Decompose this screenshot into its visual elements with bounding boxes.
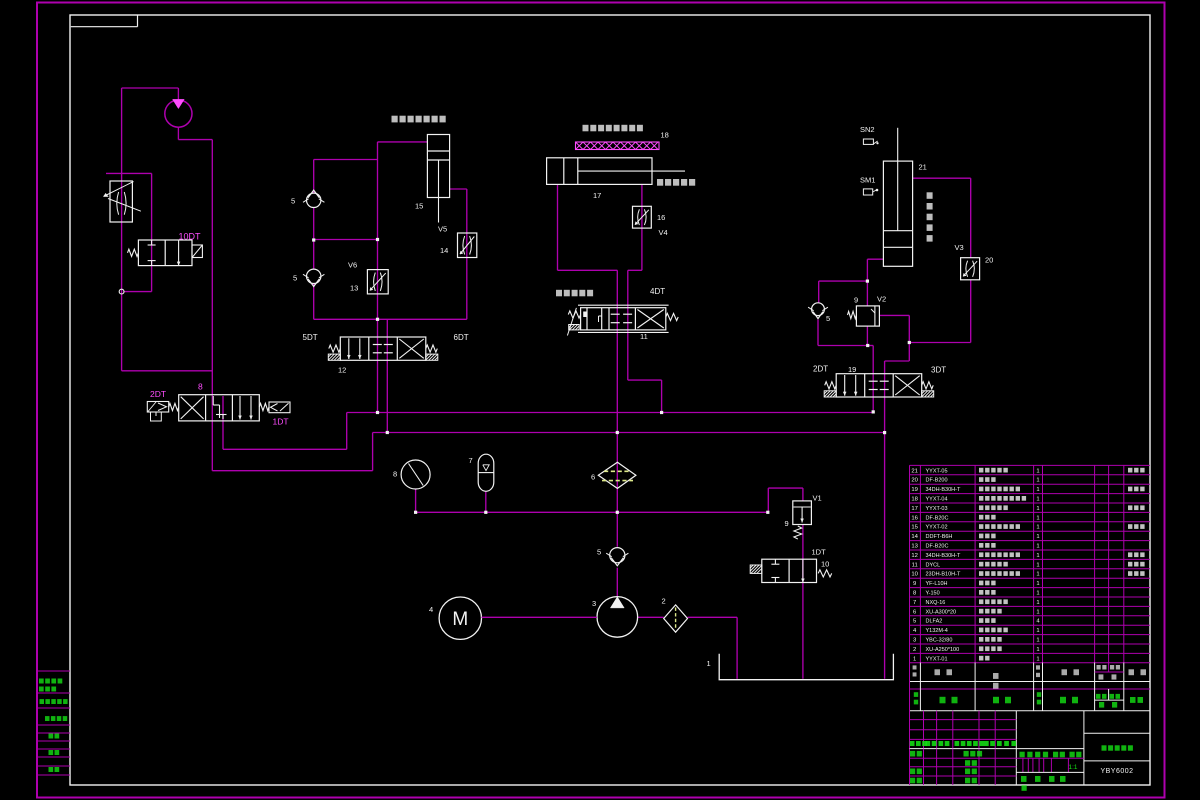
label 8	[393, 470, 397, 479]
wire	[212, 470, 372, 472]
svg-text:1:1: 1:1	[1069, 764, 1078, 771]
wire	[313, 284, 315, 320]
svg-text:XU-A300*20: XU-A300*20	[926, 609, 957, 615]
label 4	[429, 605, 433, 614]
label 5	[826, 314, 830, 323]
wire	[767, 488, 769, 512]
svg-text:1: 1	[1036, 562, 1039, 568]
wire	[558, 269, 618, 271]
svg-text:YBY6002: YBY6002	[1100, 768, 1133, 775]
svg-text:13: 13	[911, 544, 918, 550]
wire	[124, 291, 152, 293]
svg-text:1: 1	[1036, 525, 1039, 531]
svg-text:V6: V6	[348, 261, 357, 270]
wire	[378, 141, 428, 143]
svg-text:1DT: 1DT	[273, 417, 289, 427]
svg-text:2DT: 2DT	[150, 389, 166, 399]
title block grid	[910, 711, 1151, 785]
svg-text:6: 6	[591, 473, 595, 482]
svg-text:SM1: SM1	[860, 176, 875, 185]
svg-text:34DH-B30H-T: 34DH-B30H-T	[926, 487, 961, 493]
parts list header (white)	[913, 665, 1146, 689]
svg-text:YBC-32/80: YBC-32/80	[926, 638, 953, 644]
throttle valve 13 (V6)	[367, 270, 388, 294]
svg-text:YF-L10H: YF-L10H	[926, 581, 948, 587]
svg-text:19: 19	[848, 365, 856, 374]
junction	[872, 410, 875, 413]
svg-text:4DT: 4DT	[650, 287, 665, 296]
svg-text:1: 1	[1036, 609, 1039, 615]
svg-text:2: 2	[913, 647, 916, 653]
label V3	[955, 243, 964, 252]
label 4DT	[650, 287, 665, 296]
wire	[177, 127, 179, 139]
wire	[386, 319, 388, 432]
svg-text:1: 1	[1036, 544, 1039, 550]
svg-text:1: 1	[1036, 628, 1039, 634]
label 2	[662, 597, 666, 606]
wire	[485, 491, 487, 512]
svg-text:2DT: 2DT	[813, 365, 828, 374]
svg-text:1: 1	[1036, 487, 1039, 493]
junction	[376, 318, 379, 321]
title block texts	[910, 741, 1134, 791]
svg-text:1: 1	[707, 659, 711, 668]
svg-text:1: 1	[1036, 591, 1039, 597]
wire	[223, 448, 347, 450]
wire	[867, 258, 883, 260]
pressure line filter 6	[598, 462, 636, 488]
wire	[638, 616, 664, 618]
junction	[616, 431, 619, 434]
svg-text:SN2: SN2	[860, 125, 875, 134]
svg-text:3: 3	[592, 599, 596, 608]
label V5	[438, 225, 447, 234]
label V4	[659, 228, 668, 237]
label 19	[848, 365, 856, 374]
wire	[122, 370, 213, 372]
svg-text:1: 1	[1036, 468, 1039, 474]
wire	[736, 617, 738, 679]
svg-text:14: 14	[440, 246, 448, 255]
svg-text:1: 1	[1036, 506, 1039, 512]
svg-text:YYXT-02: YYXT-02	[926, 525, 948, 531]
proximity switch SM1	[863, 189, 878, 195]
svg-text:7: 7	[469, 456, 473, 465]
label 9	[785, 519, 789, 528]
svg-text:5DT: 5DT	[303, 333, 318, 342]
svg-text:DF-B200: DF-B200	[926, 478, 948, 484]
junction	[908, 341, 911, 344]
wire	[627, 270, 629, 380]
label 5	[291, 197, 295, 206]
svg-text:YYXT-03: YYXT-03	[926, 506, 948, 512]
svg-text:M: M	[452, 609, 468, 630]
wire	[628, 269, 642, 271]
svg-text:1: 1	[1036, 497, 1039, 503]
label 7	[469, 456, 473, 465]
wire	[557, 184, 559, 270]
label SM1	[860, 176, 875, 185]
svg-text:11: 11	[912, 562, 918, 568]
svg-text:Y132M-4: Y132M-4	[926, 628, 948, 634]
wire	[373, 432, 885, 434]
wire	[802, 488, 804, 501]
svg-text:DF-B20C: DF-B20C	[926, 515, 949, 521]
svg-text:5: 5	[291, 197, 295, 206]
wire	[818, 345, 868, 347]
svg-text:YYXT-05: YYXT-05	[926, 468, 948, 474]
label 5	[293, 274, 297, 283]
label 1	[707, 659, 711, 668]
svg-text:18: 18	[661, 131, 669, 140]
label V6	[348, 261, 357, 270]
throttle valve 20 (V3)	[961, 258, 980, 280]
label 20	[985, 256, 993, 265]
wire	[346, 413, 348, 450]
wire	[122, 87, 179, 89]
svg-text:21: 21	[919, 163, 927, 172]
svg-text:10: 10	[821, 560, 829, 569]
svg-text:1DT: 1DT	[812, 548, 827, 557]
svg-text:11: 11	[640, 332, 648, 341]
svg-text:17: 17	[593, 191, 601, 200]
svg-text:9: 9	[785, 519, 789, 528]
label 8	[198, 382, 203, 392]
svg-text:9: 9	[854, 296, 858, 305]
wire	[872, 346, 874, 413]
unloading solenoid valve 10 (1DT, 2/2)	[750, 559, 832, 582]
magnetic displacement sensor 18 (hatched strip)	[576, 142, 660, 150]
wire	[868, 345, 874, 347]
wire	[313, 208, 315, 269]
svg-text:16: 16	[911, 515, 918, 521]
wire	[415, 489, 417, 512]
check valve 5 (lower left)	[303, 269, 324, 286]
svg-text:17: 17	[911, 506, 918, 512]
label 12	[338, 366, 346, 375]
parts list rows	[911, 468, 1144, 663]
wire	[866, 326, 868, 345]
svg-text:8: 8	[198, 382, 203, 392]
label 16	[657, 213, 665, 222]
label 1DT	[812, 548, 827, 557]
svg-text:V4: V4	[659, 228, 668, 237]
pump outlet check valve 5	[606, 548, 628, 566]
svg-text:1: 1	[1036, 647, 1039, 653]
junction	[866, 280, 869, 283]
junction	[376, 411, 379, 414]
junction	[660, 411, 663, 414]
svg-text:15: 15	[911, 525, 918, 531]
svg-text:10: 10	[911, 572, 918, 578]
wire	[970, 178, 972, 258]
wire	[222, 396, 224, 449]
hydraulic motor (top-left, magenta)	[165, 99, 192, 127]
svg-text:9: 9	[913, 581, 916, 587]
svg-text:NXQ-16: NXQ-16	[926, 600, 946, 606]
wire	[884, 361, 886, 679]
wire	[628, 379, 662, 381]
junction	[766, 511, 769, 514]
svg-text:8: 8	[393, 470, 397, 479]
wire	[466, 189, 468, 319]
wire	[818, 281, 820, 303]
electric motor 4 (M)	[439, 597, 597, 639]
svg-text:Y-150: Y-150	[926, 591, 940, 597]
svg-text:20: 20	[985, 256, 993, 265]
svg-text:15: 15	[415, 202, 423, 211]
chinese annotation texts (blocks)	[392, 116, 933, 297]
junction	[414, 511, 417, 514]
label 9	[854, 296, 858, 305]
svg-text:1: 1	[1036, 656, 1039, 662]
svg-text:YYXT-04: YYXT-04	[926, 497, 948, 503]
svg-text:13: 13	[350, 284, 358, 293]
wire	[688, 616, 738, 618]
wire	[121, 88, 123, 371]
wire	[314, 239, 378, 241]
wire	[908, 343, 910, 362]
wire	[178, 139, 212, 141]
svg-text:1: 1	[913, 656, 916, 662]
wire	[177, 88, 179, 100]
wire	[909, 342, 970, 344]
svg-text:5: 5	[293, 274, 297, 283]
wire	[616, 270, 618, 547]
label 2DT	[150, 389, 166, 399]
wire	[908, 315, 910, 342]
suction filter 2	[664, 605, 688, 632]
svg-text:5: 5	[597, 548, 601, 557]
svg-text:20: 20	[911, 478, 918, 484]
wire	[313, 160, 315, 194]
svg-text:1: 1	[1036, 572, 1039, 578]
svg-text:16: 16	[657, 213, 665, 222]
junction	[312, 238, 315, 241]
wire	[817, 320, 819, 346]
svg-text:18: 18	[911, 497, 918, 503]
wire	[450, 188, 467, 190]
check valve 5 (right)	[808, 303, 828, 319]
svg-text:1: 1	[1036, 638, 1039, 644]
vertical lift cylinder 21	[883, 128, 912, 266]
wire	[372, 433, 374, 471]
svg-text:2: 2	[662, 597, 666, 606]
wire	[661, 380, 663, 412]
check valve 5 (upper left)	[303, 190, 324, 207]
svg-text:12: 12	[338, 366, 346, 375]
label 3DT	[931, 366, 946, 375]
wire	[802, 525, 804, 679]
junction	[386, 431, 389, 434]
label 17	[593, 191, 601, 200]
label 10	[821, 560, 829, 569]
relief valve V1 (9)	[793, 501, 812, 539]
svg-text:34DH-B30H-T: 34DH-B30H-T	[926, 553, 961, 559]
junction	[376, 238, 379, 241]
label V2	[877, 295, 886, 304]
svg-text:DYCL: DYCL	[926, 562, 941, 568]
label 6DT	[454, 333, 469, 342]
svg-text:7: 7	[913, 600, 916, 606]
junction	[484, 511, 487, 514]
wire	[211, 140, 213, 471]
pilot valve V2 (9)	[848, 306, 880, 326]
wire	[377, 142, 379, 413]
junction	[616, 511, 619, 514]
svg-text:21: 21	[911, 468, 918, 474]
label 14	[440, 246, 448, 255]
wire	[970, 280, 972, 343]
label 10DT	[179, 232, 202, 242]
oil tank 1	[719, 654, 893, 680]
label 6	[591, 473, 595, 482]
wire	[416, 511, 769, 513]
label 1DT	[273, 417, 289, 427]
svg-text:12: 12	[911, 553, 918, 559]
label 13	[350, 284, 358, 293]
svg-text:1: 1	[1036, 581, 1039, 587]
wire	[106, 172, 152, 174]
svg-text:14: 14	[911, 534, 918, 540]
directional valve 19 (3-pos, 2DT/3DT)	[824, 374, 934, 397]
directional valve 12 (3-pos, 5DT/6DT)	[328, 337, 438, 360]
wire	[347, 412, 874, 414]
svg-text:XU-A250*100: XU-A250*100	[926, 647, 960, 653]
label 5DT	[303, 333, 318, 342]
junction	[866, 344, 869, 347]
wire	[879, 314, 909, 316]
svg-text:DF-B20C: DF-B20C	[926, 544, 949, 550]
label 3	[592, 599, 596, 608]
electro-hydraulic servo valve 11 (4DT)	[567, 305, 678, 335]
svg-text:1: 1	[1036, 553, 1039, 559]
svg-text:YYXT-01: YYXT-01	[926, 656, 948, 662]
wire	[641, 184, 643, 270]
directional valve 8 (3-pos, 2DT/1DT)	[147, 395, 290, 421]
svg-text:3DT: 3DT	[931, 366, 946, 375]
svg-text:23DH-B10H-T: 23DH-B10H-T	[926, 572, 961, 578]
svg-text:V5: V5	[438, 225, 447, 234]
svg-text:V1: V1	[813, 494, 822, 503]
svg-text:10DT: 10DT	[179, 232, 202, 242]
proximity switch SN2	[863, 139, 878, 144]
node connection circle	[119, 289, 124, 294]
gripper cylinder 15	[427, 135, 449, 223]
wire	[151, 173, 153, 291]
label 5	[597, 548, 601, 557]
label 21	[919, 163, 927, 172]
wire	[913, 177, 971, 179]
wire	[768, 487, 803, 489]
svg-text:V2: V2	[877, 295, 886, 304]
svg-text:6DT: 6DT	[454, 333, 469, 342]
label 15	[415, 202, 423, 211]
parts list table grid	[910, 465, 1151, 785]
wire	[314, 318, 467, 320]
wire	[819, 280, 868, 282]
pressure gauge 8	[401, 460, 430, 489]
svg-text:1: 1	[1036, 600, 1039, 606]
wire	[885, 360, 910, 362]
adjustable throttle valve (top-left)	[104, 181, 141, 222]
accumulator 7	[478, 454, 494, 491]
label 2DT	[813, 365, 828, 374]
svg-text:5: 5	[826, 314, 830, 323]
label 11	[640, 332, 648, 341]
svg-text:DDFT-B6H: DDFT-B6H	[926, 534, 953, 540]
wire	[314, 159, 378, 161]
svg-text:DLFA2: DLFA2	[926, 619, 943, 625]
svg-text:1: 1	[1036, 534, 1039, 540]
label SN2	[860, 125, 875, 134]
horizontal telescopic cylinder 17	[547, 158, 685, 185]
svg-text:V3: V3	[955, 243, 964, 252]
hydraulic pump 3	[597, 597, 638, 638]
svg-text:4: 4	[429, 605, 433, 614]
wire	[616, 568, 618, 597]
throttle valve 14 (V5)	[458, 233, 477, 258]
junction	[883, 431, 886, 434]
wire	[866, 259, 868, 306]
svg-text:1: 1	[1036, 515, 1039, 521]
label 18	[661, 131, 669, 140]
svg-text:1: 1	[1036, 478, 1039, 484]
throttle valve 16 (V4)	[633, 206, 652, 228]
left margin title cells	[37, 671, 70, 775]
parts list header (green)	[914, 692, 1143, 707]
svg-text:19: 19	[911, 487, 918, 493]
solenoid valve 10DT (2/2)	[128, 240, 203, 266]
label V1	[813, 494, 822, 503]
